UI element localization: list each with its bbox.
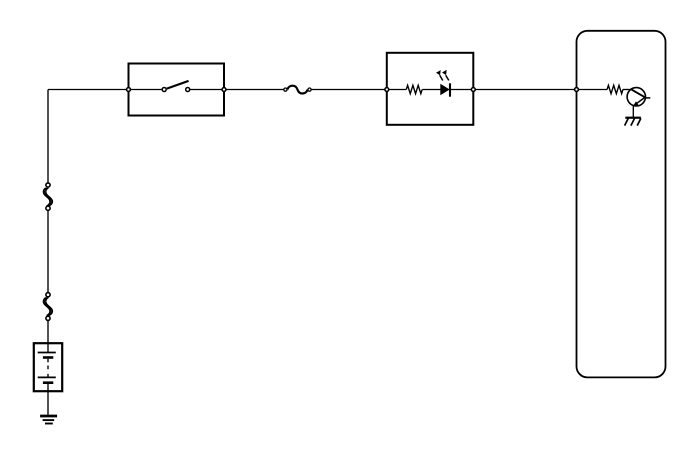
connector J1 bottom terminal (46, 206, 50, 210)
wire: left vertical between connectors (47, 208, 49, 295)
connector J2 coil (43, 297, 52, 315)
wire: fuse to LED box (310, 89, 387, 91)
fuse F1 left terminal (284, 88, 287, 91)
resistor R1 (LED box) (406, 85, 422, 93)
battery BT1 plate long top (38, 352, 56, 354)
wire: resistor to LED and out (422, 89, 473, 91)
LED D1 emission arrow 2 (442, 70, 449, 81)
connector J2 top terminal (46, 293, 50, 297)
wire: left vertical battery feed upper (47, 90, 49, 186)
chassis ground (ECU) (625, 118, 641, 126)
ECU rounded enclosure (577, 31, 666, 378)
wire: ECU terminal to internal resistor (577, 89, 608, 91)
battery BT1 dashed link (47, 359, 49, 378)
transistor Q1 base bar (632, 90, 645, 98)
ECU terminal (575, 88, 579, 92)
fuse F1 right terminal (308, 88, 311, 91)
earth ground (battery) (40, 416, 57, 424)
switch S1 left contact (162, 88, 166, 92)
wire: battery to ground (47, 383, 49, 415)
wire: switch box to fuse (224, 89, 285, 91)
resistor R2 (ECU) (607, 85, 623, 93)
wire: battery to switch (horizontal) (48, 89, 129, 91)
battery BT1 plate long bottom (38, 376, 56, 378)
battery BT1 plate short bottom (43, 381, 53, 384)
LED D1 cathode bar (449, 83, 451, 96)
LED D1 triangle (440, 84, 449, 95)
switch S1 right contact (186, 88, 190, 92)
wire: LED box to ECU (473, 89, 576, 91)
wire: resistor to transistor base (623, 89, 633, 91)
wire: inside switch box left (129, 89, 165, 91)
LED box terminal left (385, 88, 389, 92)
wire: LED box terminal to resistor (387, 89, 406, 91)
switch box terminal right (222, 88, 226, 92)
fuse F1 element (287, 86, 307, 94)
wire: inside switch box right (188, 89, 224, 91)
connector J1 coil (43, 188, 52, 206)
wire: battery box top lead (47, 343, 49, 352)
battery BT1 box (34, 343, 62, 391)
connector J2 bottom terminal (46, 316, 50, 320)
transistor Q1 body circle (627, 88, 645, 106)
connector J1 top terminal (46, 183, 50, 187)
switch box terminal left (127, 88, 131, 92)
wire: connector to battery box (47, 318, 49, 343)
transistor Q1 collector tick (645, 97, 651, 99)
battery BT1 plate short top (43, 356, 53, 359)
LED enclosure box (387, 53, 474, 125)
switch enclosure box (129, 64, 225, 116)
switch S1 blade (167, 81, 189, 89)
LED box terminal right (471, 88, 475, 92)
transistor Q1 emitter (633, 98, 645, 107)
wire: emitter to chassis ground (632, 106, 634, 118)
LED D1 emission arrow 1 (436, 70, 443, 80)
